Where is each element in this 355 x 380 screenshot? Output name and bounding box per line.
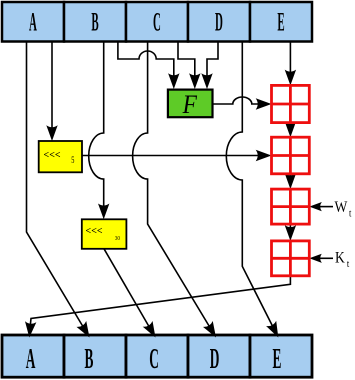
- register C (bottom): [126, 335, 188, 377]
- arrowhead D into F: [201, 73, 212, 89]
- wire A to rotate-left-5: [51, 42, 53, 131]
- arrowhead into bottom C: [143, 321, 161, 340]
- svg-text:B: B: [85, 342, 94, 374]
- wire A to bottom B: [27, 42, 86, 331]
- arrowhead K_t into adder 4: [309, 254, 322, 263]
- wire B to F (bump over C wire): [118, 42, 174, 79]
- arrowhead into bottom D: [203, 321, 221, 340]
- register B (bottom): [64, 335, 126, 377]
- arrowhead into bottom E: [266, 321, 283, 340]
- arrowhead adder2 to adder3: [285, 173, 296, 189]
- register E (top): [250, 2, 312, 42]
- wire rotate-left-30 output to bottom C: [104, 249, 151, 330]
- svg-text:B: B: [91, 8, 98, 37]
- arrowhead into bottom B: [76, 321, 94, 340]
- wire adder 4 output to bottom A: [30, 276, 291, 331]
- svg-text:5: 5: [71, 155, 74, 165]
- register A (bottom): [2, 335, 64, 377]
- register D (top): [188, 2, 250, 42]
- arrowhead F into adder 1: [256, 98, 272, 109]
- adder 4 (modular add, + K_t): [272, 241, 310, 276]
- register E (bottom): [250, 335, 312, 377]
- wire C to bottom D (hops over rot5 output): [133, 42, 212, 331]
- wire rotate-left-5 output to adder 2: [82, 155, 260, 157]
- wire D to F: [207, 42, 218, 79]
- svg-text:A: A: [26, 342, 36, 374]
- svg-text:F: F: [182, 91, 198, 119]
- wire D to bottom E (hops over rot5 output): [226, 42, 274, 330]
- register B (top): [64, 2, 126, 42]
- svg-text:<<<: <<<: [44, 150, 61, 161]
- arrowhead B into F: [168, 73, 179, 89]
- svg-text:<<<: <<<: [86, 226, 103, 237]
- wire C to F: [178, 42, 195, 79]
- wire adder 2 to adder 3: [289, 174, 291, 178]
- arrowhead W_t into adder 3: [309, 202, 322, 211]
- rotate-left-30 box: [82, 219, 127, 249]
- svg-text:E: E: [273, 342, 282, 374]
- arrowhead E into adder 1: [285, 70, 296, 86]
- arrowhead C into F: [189, 73, 200, 89]
- arrowhead adder1 to adder2: [285, 121, 296, 137]
- arrowhead adder3 to adder4: [285, 225, 296, 241]
- register A (top): [2, 2, 64, 42]
- register D (bottom): [188, 335, 250, 377]
- arrowhead into rotate-left-5: [46, 125, 57, 141]
- svg-text:C: C: [153, 8, 161, 37]
- adder 3 (modular add, + W_t): [272, 189, 310, 224]
- wire W_t into adder 3: [320, 206, 333, 208]
- svg-text:A: A: [29, 8, 37, 37]
- wire K_t into adder 4: [320, 257, 333, 259]
- adder 1 (modular add, E + F): [272, 85, 310, 122]
- adder 2 (modular add, + rot5): [272, 137, 310, 174]
- svg-text:C: C: [149, 342, 159, 374]
- arrowhead into bottom A: [24, 321, 37, 338]
- svg-text:30: 30: [115, 236, 120, 243]
- function box F: [168, 90, 213, 118]
- wire adder 1 to adder 2: [289, 123, 291, 127]
- svg-text:E: E: [277, 8, 284, 37]
- wire F output to adder 1 (bump over D wire): [213, 97, 260, 104]
- register C (top): [126, 2, 188, 42]
- svg-text:D: D: [210, 342, 220, 374]
- wire adder 3 to adder 4: [289, 224, 291, 230]
- wire E to adder 1: [289, 42, 291, 75]
- wire B to rotate-left-30 (hops over rot5 output): [89, 42, 104, 209]
- arrowhead rot5 into adder 2: [256, 150, 272, 161]
- arrowhead into rotate-left-30: [98, 204, 109, 220]
- rotate-left-5 box: [39, 141, 82, 172]
- svg-text:D: D: [215, 8, 223, 37]
